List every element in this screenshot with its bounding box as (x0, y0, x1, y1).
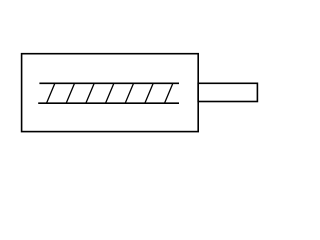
hatch line 5 (125, 83, 133, 103)
hatch line 3 (86, 83, 94, 103)
hatch line 4 (106, 83, 114, 103)
hatch line 6 (145, 83, 153, 103)
body (outer rectangle enclosure) (22, 54, 199, 132)
screw element bottom line (38, 102, 179, 104)
hatch line 2 (66, 83, 74, 103)
screw element top line (39, 82, 179, 84)
hatch line 7 (165, 83, 173, 103)
hatch line 1 (47, 83, 55, 103)
shaft (output rod, right side rectangle) (198, 83, 257, 101)
